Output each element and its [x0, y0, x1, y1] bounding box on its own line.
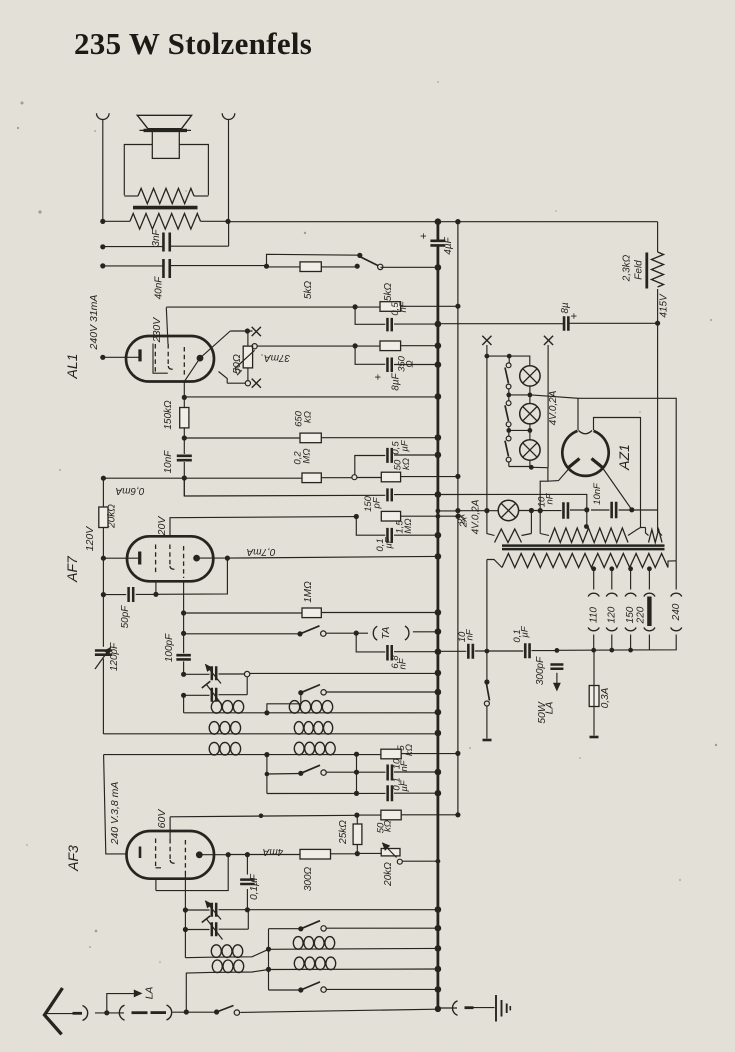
wire lamp4 row — [438, 510, 458, 512]
switch KW2 contact — [321, 987, 326, 992]
node contact row478 — [352, 475, 357, 480]
wire row633 — [184, 633, 300, 635]
wire 0,1uF AF3 leads — [246, 855, 248, 875]
junction switch ANT — [214, 1009, 219, 1014]
junction rowA bus — [435, 709, 442, 716]
output transformer core bar — [133, 206, 198, 210]
svg-text:AF7: AF7 — [64, 555, 80, 583]
svg-text:37mA: 37mA — [264, 352, 290, 363]
wire rung2 — [509, 394, 530, 396]
junction 3nF left — [100, 244, 105, 249]
svg-text:240: 240 — [671, 603, 682, 621]
potentiometer 50Ohm — [243, 346, 252, 368]
wire row478 — [103, 477, 302, 479]
wire row674 — [184, 673, 210, 675]
speaker terminal right — [222, 113, 235, 119]
wire sw2 stubs — [508, 395, 510, 401]
junction row753 tap — [354, 752, 359, 757]
switch S1 blade — [359, 256, 378, 266]
wire row755 line — [103, 754, 381, 756]
svg-text:220: 220 — [636, 606, 647, 624]
wire earth lead — [474, 1007, 495, 1009]
junction row364 bus — [435, 361, 442, 368]
wire x268 osc — [268, 929, 270, 990]
wire rung1 — [487, 356, 530, 365]
junction row753 rail — [455, 751, 460, 756]
junction switch S1 — [355, 264, 360, 269]
capacitor 10nF AVC — [388, 765, 392, 781]
tube AF3 cathode foot — [156, 867, 161, 869]
svg-text:nF: nF — [399, 759, 410, 771]
resistor 150kOhm — [180, 408, 189, 428]
fuse 0,3A — [589, 686, 599, 707]
tube AF3 envelope — [127, 831, 215, 879]
junction row633 bus — [435, 628, 442, 635]
screen rail vertical — [457, 222, 459, 815]
svg-text:AL1: AL1 — [64, 354, 80, 380]
trimmer capacitor padder1 — [212, 666, 216, 680]
tube AF7 envelope — [127, 536, 213, 581]
wire row815 — [169, 817, 171, 839]
svg-text:100pF: 100pF — [164, 633, 175, 662]
junction rowC bus — [435, 945, 442, 952]
svg-text:kΩ: kΩ — [404, 744, 415, 756]
junction AF3 0,1uF tap — [245, 852, 250, 857]
junction row652 bus — [435, 648, 442, 655]
tube AF3 cathode lead — [155, 878, 157, 891]
wire V1 to AF3 — [104, 755, 127, 854]
wire 415V to winding — [657, 323, 659, 510]
wire earth row — [438, 1007, 457, 1009]
switch MW1 blade — [301, 685, 320, 693]
svg-text:+: + — [418, 233, 430, 239]
junction antenna coil — [184, 1009, 189, 1014]
resistor 5kOhm AVC — [381, 749, 401, 759]
junction row910 bus — [435, 906, 442, 913]
wire row364 — [355, 345, 385, 365]
svg-text:240 V.3,8 mA: 240 V.3,8 mA — [109, 782, 121, 846]
tube AL1 grid2 dash — [167, 344, 169, 366]
capacitor 300pF — [550, 665, 563, 669]
tube AZ1 filament — [579, 431, 593, 434]
inductor L8a — [212, 960, 222, 973]
inductor L1 — [211, 701, 221, 714]
svg-text:4µF: 4µF — [443, 236, 454, 254]
wire lamp rail right link — [531, 466, 548, 468]
output transformer secondary winding — [130, 214, 201, 230]
junction selbot 120 — [609, 648, 614, 653]
tube AF7 grid bar — [138, 552, 141, 565]
wire row346 — [257, 345, 380, 347]
junction heater right — [629, 507, 634, 512]
svg-text:TA: TA — [380, 627, 392, 640]
junction AF3 anode — [226, 852, 231, 857]
junction rowC tap — [266, 947, 271, 952]
resistor 0,2MOhm — [302, 473, 321, 483]
resistor 650kOhm — [300, 433, 321, 443]
switch lamp2 bottom contact — [506, 422, 511, 427]
svg-text:MΩ: MΩ — [403, 518, 414, 533]
junction 415V node — [655, 321, 660, 326]
junction tap110 — [591, 566, 596, 571]
potentiometer 20kOhm arrow — [383, 843, 397, 858]
resistor 350Ohm — [380, 341, 401, 351]
capacitor 10nF heater right — [612, 502, 617, 519]
junction row695 left — [181, 693, 186, 698]
capacitor 0,5uF — [387, 448, 391, 463]
inductor L4 — [294, 722, 303, 735]
wire x356 stub2 — [356, 772, 358, 793]
svg-text:20V: 20V — [156, 516, 168, 537]
capacitor 0,1uF AF3 — [240, 880, 255, 884]
junction bus top — [435, 218, 442, 225]
wire AF3 cathode loop — [156, 855, 228, 891]
svg-text:150: 150 — [625, 606, 636, 623]
wire Feld top — [657, 222, 659, 252]
junction row438 bus — [435, 434, 442, 441]
inductor L6a — [211, 945, 221, 958]
transformer core bars — [502, 544, 665, 547]
junction row478 x184 — [182, 475, 187, 480]
junction lamp4 ladder — [484, 508, 489, 513]
arrow to LA mains — [556, 673, 558, 687]
connector jack left arc — [119, 1005, 124, 1020]
junction selbot 110 — [591, 648, 596, 653]
trimmer osc2 arrow — [207, 919, 223, 940]
junction row929 left — [183, 927, 188, 932]
tube AF3 anode dash — [184, 840, 186, 875]
svg-text:120V: 120V — [84, 526, 96, 552]
x-mark lamp rail left — [482, 336, 491, 345]
wire pot bottom rail — [227, 382, 245, 384]
resistor 50kOhm cathode — [381, 472, 400, 482]
wire AZ1 anode2 lead — [600, 464, 632, 510]
wire row594 — [103, 594, 126, 596]
wire row929 — [185, 929, 209, 931]
junction row517 rail — [455, 514, 460, 519]
svg-text:150kΩ: 150kΩ — [163, 400, 174, 430]
capacitor 4uF — [430, 241, 445, 246]
pilot lamp 2 — [520, 404, 540, 424]
junction heater tap — [538, 508, 543, 513]
wire 0,1uF stub — [356, 517, 385, 536]
svg-text:10nF: 10nF — [592, 482, 603, 505]
inductor L6b — [293, 937, 303, 950]
svg-text:0,1µF: 0,1µF — [249, 873, 260, 900]
junction row307 rail — [455, 304, 460, 309]
switch lamp1 top contact — [506, 363, 511, 368]
potentiometer 50Ohm leads — [247, 331, 249, 346]
potentiometer 20kOhm — [381, 849, 400, 856]
wire right terminal drop — [228, 120, 230, 222]
voltage selector plug bar — [647, 597, 651, 627]
junction tap220 — [647, 566, 652, 571]
junction mains switch top — [485, 649, 490, 654]
svg-text:240V 31mA: 240V 31mA — [88, 295, 100, 351]
switch lamp3 bottom contact — [506, 457, 511, 462]
svg-text:2x: 2x — [459, 516, 470, 529]
tube AL1 grid bar — [138, 349, 141, 361]
svg-text:20kΩ: 20kΩ — [107, 504, 118, 529]
wire sw1 stubs — [508, 356, 510, 363]
tube AL1 grid lead — [103, 356, 139, 358]
svg-text:4mA: 4mA — [262, 846, 283, 857]
switch S1 contact — [378, 264, 383, 269]
wire 6,8nF stub — [356, 633, 385, 652]
svg-text:60V: 60V — [156, 809, 168, 829]
svg-text:AF3: AF3 — [65, 845, 81, 872]
wire row692 stub down — [267, 693, 301, 713]
wire rowB line — [103, 733, 438, 735]
switch mains — [484, 679, 489, 684]
junction LA stub — [104, 1010, 109, 1015]
junction TA left — [354, 631, 359, 636]
svg-text:kΩ: kΩ — [383, 820, 394, 832]
wire left bus top — [102, 120, 104, 221]
junction row772 tap — [354, 770, 359, 775]
wire pot top rail — [230, 330, 252, 332]
junction row397 left — [182, 395, 187, 400]
earth jack arc — [452, 1001, 457, 1016]
junction speaker line right — [225, 219, 230, 224]
wire row517 — [170, 517, 356, 537]
capacitor 0,5nF — [387, 318, 391, 332]
antenna lead — [45, 1013, 73, 1015]
loudspeaker magnet — [152, 131, 179, 158]
junction rung1 left — [485, 354, 490, 359]
x-mark pot bottom — [252, 379, 261, 388]
junction rowA tap — [264, 710, 269, 715]
junction row815 a — [259, 814, 264, 819]
wire selector bottom row — [557, 635, 676, 651]
switch ANT contact — [234, 1010, 239, 1015]
tap 110 lead — [593, 568, 595, 590]
svg-text:50Ω: 50Ω — [231, 354, 243, 374]
svg-text:10nF: 10nF — [163, 450, 174, 474]
junction AF7 grid — [101, 556, 106, 561]
capacitor 0,1uF mains — [525, 643, 529, 658]
transformer winding 4V lamps — [487, 511, 495, 536]
junction switch KW1 — [298, 926, 303, 931]
junction row674 bus — [435, 670, 442, 677]
wire lamp2 stubs — [529, 395, 531, 404]
switch TA blade — [300, 626, 320, 634]
loudspeaker voice coil bar — [144, 129, 188, 132]
arrow to LA — [107, 994, 134, 1013]
junction rowD tap — [266, 967, 271, 972]
switch lamp3 blade — [505, 441, 509, 457]
capacitor 50pF — [129, 587, 134, 602]
junction switch TA — [297, 631, 302, 636]
pilot lamp 4 — [498, 500, 518, 520]
junction rung2 b — [528, 393, 533, 398]
wire rowA line — [184, 712, 438, 714]
inductor L5a — [209, 742, 219, 755]
wire AL1 screen lead 230V — [166, 308, 168, 345]
junction selbot 150 — [628, 648, 633, 653]
junction wiper bus — [436, 859, 441, 864]
wire 25k leads — [356, 815, 358, 824]
wire AZ1 anode1 path — [548, 465, 572, 482]
junction row674 left — [181, 672, 186, 677]
svg-text:Feld: Feld — [634, 260, 645, 280]
tube AF7 grid lead — [103, 557, 138, 559]
junction row910 x248 — [245, 907, 250, 912]
junction rung3 b — [528, 428, 533, 433]
x-mark lamp rail right — [544, 336, 553, 345]
mains lead right end — [590, 736, 599, 739]
svg-text:8µF: 8µF — [391, 372, 402, 390]
svg-text:µF: µF — [384, 536, 395, 548]
resistor 1,5MOhm — [381, 511, 400, 521]
inductor L3 — [209, 722, 219, 735]
switch MW1 contact — [321, 690, 326, 695]
switch MW2 blade — [301, 765, 320, 773]
junction switch MW2 — [298, 771, 303, 776]
capacitor 150pF — [387, 488, 391, 501]
tube AF7 grid2 dash — [169, 545, 171, 567]
wire antenna row mid — [173, 1011, 217, 1013]
switch ANT blade — [217, 1006, 234, 1013]
svg-text:300pF: 300pF — [535, 656, 546, 685]
svg-text:2,3kΩ: 2,3kΩ — [622, 254, 633, 282]
junction row990 bus — [435, 986, 442, 993]
voltage selector socket 240 — [671, 593, 682, 596]
wire V1 low — [102, 659, 104, 734]
speaker terminal left — [97, 113, 110, 119]
resistor 25kOhm — [353, 824, 362, 845]
resistor 2.3kOhm Feld winding — [652, 252, 664, 287]
svg-text:+: + — [373, 374, 385, 380]
potentiometer wiper contact — [252, 344, 257, 349]
wire row990 switch — [269, 989, 301, 991]
svg-text:LA: LA — [144, 987, 156, 1000]
wire AL1 anode up — [200, 331, 230, 358]
junction row346 tap — [353, 343, 358, 348]
transformer primary winding — [502, 554, 668, 568]
junction row928 bus — [435, 925, 442, 932]
svg-text:kΩ: kΩ — [303, 411, 314, 423]
resistor 1MOhm — [302, 608, 321, 618]
svg-text:50W: 50W — [536, 701, 548, 724]
svg-text:nF: nF — [545, 492, 556, 504]
wire 0,5uF stub — [355, 456, 386, 475]
output transformer frame — [124, 145, 152, 196]
junction row613 left — [181, 610, 186, 615]
wire AZ1 filament lead right — [594, 418, 641, 528]
wire AZ1 plate node drop — [540, 481, 548, 510]
junction row267 bus — [435, 264, 442, 271]
voltage selector socket 220 — [644, 593, 655, 596]
wire row438 — [184, 437, 300, 439]
junction AL1 grid — [100, 355, 105, 360]
wire row307 — [166, 306, 380, 308]
svg-text:120: 120 — [607, 606, 618, 623]
tube AF7 anode lead — [200, 557, 227, 559]
junction speaker line left — [100, 219, 105, 224]
resistor 5kOhm speaker — [300, 262, 321, 272]
svg-text:0,3A: 0,3A — [600, 687, 611, 708]
wire row324 — [355, 307, 385, 324]
wire row496 — [184, 478, 385, 496]
switch KW2 blade — [301, 982, 320, 990]
potentiometer 50Ohm arrow — [235, 350, 255, 368]
svg-text:120pF: 120pF — [109, 642, 120, 671]
antenna jack arc — [83, 1006, 88, 1021]
wire rung3 — [509, 429, 530, 431]
svg-text:nF: nF — [398, 657, 409, 669]
junction AF7 anode — [225, 556, 230, 561]
svg-text:pF: pF — [372, 496, 383, 509]
tube AL1 anode dash — [183, 347, 185, 375]
main bus vertical — [436, 222, 439, 241]
tube AL1 cathode dash — [154, 344, 156, 372]
wire row928 switch — [269, 928, 301, 930]
tube AF7 cathode dash — [155, 545, 157, 576]
tap 220 lead — [648, 568, 650, 590]
tube AF3 cathode dash — [155, 839, 157, 869]
wire coil rowA left lead — [183, 695, 185, 713]
svg-text:20kΩ: 20kΩ — [383, 862, 394, 887]
svg-text:µF: µF — [400, 439, 411, 451]
junction switch KW2 — [298, 987, 303, 992]
wire antenna row to bus — [240, 1009, 438, 1012]
wire row557 — [227, 556, 438, 558]
wire row496 to heater tap — [438, 494, 587, 509]
tube AF7 anode node — [193, 555, 200, 562]
junction rung1 switch — [507, 354, 512, 359]
svg-text:415V: 415V — [659, 293, 670, 318]
wire lamp4 right — [519, 510, 540, 512]
switch lamp1 bottom contact — [506, 384, 511, 389]
junction row478 left — [101, 476, 106, 481]
wire 40nF row — [103, 265, 163, 267]
switch MW2 contact — [321, 770, 326, 775]
junction row793 tap — [354, 791, 359, 796]
tube AZ1 envelope — [562, 431, 608, 476]
wire x185 below AF3 — [184, 875, 186, 958]
tap 120 lead — [611, 568, 613, 590]
junction row307 tap — [353, 304, 358, 309]
resistor 300Ohm — [300, 849, 331, 859]
wire row695 — [184, 694, 210, 696]
svg-text:kΩ: kΩ — [401, 458, 412, 470]
tube AF3 grid bar — [139, 847, 142, 859]
svg-text:nF: nF — [465, 628, 476, 640]
junction x267 row772 — [265, 772, 270, 777]
svg-text:25kΩ: 25kΩ — [338, 820, 349, 845]
inductor L2 — [289, 701, 299, 714]
wire row772 — [267, 773, 301, 776]
wire row613 — [184, 612, 302, 614]
wire sw3 stubs — [508, 430, 510, 436]
junction row438 left — [182, 435, 187, 440]
wire row267 — [267, 266, 358, 268]
voltage selector socket 120 — [606, 593, 617, 596]
x-mark pot top — [252, 327, 261, 336]
earth plug pin — [465, 1006, 474, 1009]
wire antenna row left — [95, 1012, 124, 1014]
trimmer capacitor 120pF — [95, 651, 112, 655]
capacitor 8uF cathode — [387, 357, 391, 372]
wire x183 below AF7 — [183, 581, 185, 653]
junction tap120 — [609, 566, 614, 571]
junction rung3 a — [506, 428, 511, 433]
junction row772 bus — [435, 769, 442, 776]
junction 25k bottom — [355, 851, 360, 856]
junction rung4 — [529, 465, 534, 470]
svg-text:µF: µF — [520, 625, 531, 637]
